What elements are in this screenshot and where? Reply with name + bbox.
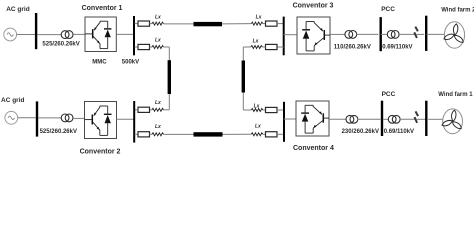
svg-text:AC grid: AC grid: [6, 6, 30, 13]
wind turbine (Wind farm 2): [443, 22, 464, 48]
wire L1 to cable 13: [164, 23, 194, 25]
inductor L7: [251, 109, 262, 112]
wire L8 to R8: [263, 133, 266, 135]
wire T5 to PCC bus: [358, 118, 381, 120]
transformer T6: [388, 115, 400, 123]
DC cable 13 (top): [194, 22, 223, 26]
svg-text:Conventor 3: Conventor 3: [293, 3, 334, 10]
wire bus to wind turbine 2: [426, 33, 444, 35]
breaker (top): [414, 27, 418, 38]
wire G2 to bus: [18, 117, 36, 119]
converter U4 (MMC): [296, 101, 329, 136]
AC source G2: [5, 111, 18, 124]
bus bar AC grid top: [35, 13, 37, 49]
transformer T1: [61, 31, 73, 39]
wire bus to wind turbine 1: [428, 118, 443, 120]
wire cable 13 to L5: [222, 23, 251, 25]
DC bus of converter 1: [133, 16, 135, 55]
wire left cable to L3: [164, 109, 170, 111]
wind farm bus (top): [425, 16, 427, 51]
transformer T4: [387, 31, 399, 39]
PCC bus (bottom): [381, 101, 383, 136]
transformer T2: [61, 114, 73, 122]
wire L3 to R3: [150, 109, 153, 111]
inductor L4: [152, 133, 164, 136]
wire R7 to bus4: [277, 109, 284, 111]
converter U2 (MMC): [85, 102, 117, 139]
svg-text:Conventor 4: Conventor 4: [293, 145, 334, 152]
DC cable 24 (bottom): [194, 132, 223, 136]
svg-text:110/260.26kV: 110/260.26kV: [334, 44, 371, 50]
series device R6: [266, 44, 278, 49]
wire bus1 to R2: [135, 46, 138, 48]
svg-text:Lx: Lx: [155, 14, 161, 20]
wire T3 to PCC bus: [356, 33, 378, 35]
wire R8 to bus4: [277, 133, 284, 135]
wire bus2 to R4: [135, 133, 138, 135]
wire bus to transformer T2: [38, 117, 61, 119]
wire breaker to WF bus: [416, 33, 424, 35]
series device R3: [138, 107, 150, 112]
DC bus of converter 4: [283, 102, 285, 142]
transformer T5: [346, 115, 358, 123]
wire right cable vertical: [242, 47, 244, 110]
svg-text:525/260.26kV: 525/260.26kV: [40, 129, 77, 135]
wire U2 to DC bus: [117, 118, 134, 120]
wire bus3 to converter U3: [284, 34, 297, 36]
wire right cable to L7: [243, 109, 251, 111]
converter U1 (MMC): [85, 17, 116, 52]
svg-text:Lx: Lx: [253, 39, 259, 45]
inductor L1: [152, 22, 164, 25]
inductor L8: [251, 133, 262, 136]
wire L2 corner: [164, 46, 170, 48]
wire R5 to bus3: [277, 23, 284, 25]
wire R6 to L6: [262, 46, 265, 48]
svg-text:Lx: Lx: [155, 100, 161, 106]
svg-text:AC grid: AC grid: [1, 97, 25, 104]
wire T2 to converter U2: [73, 117, 85, 119]
wire R4 to L4: [150, 133, 153, 135]
svg-text:MMC: MMC: [92, 59, 107, 65]
series device R4: [138, 132, 150, 137]
wire L6 corner: [243, 46, 251, 48]
wire U3 to transformer T3: [330, 33, 345, 35]
wire T1 to converter U1: [73, 33, 85, 35]
inductor L6: [251, 46, 262, 49]
series device R8: [266, 132, 278, 137]
DC cable 34 (right): [242, 61, 245, 93]
PCC bus (top): [380, 17, 382, 51]
wire PCC to transformer T6: [383, 118, 389, 120]
inductor L3: [152, 108, 164, 111]
wire R3 to bus2: [135, 109, 138, 111]
svg-text:PCC: PCC: [381, 6, 395, 13]
AC source G1: [4, 28, 17, 41]
wire L5 to R5: [263, 23, 266, 25]
svg-text:525/260.26kV: 525/260.26kV: [42, 41, 79, 47]
svg-text:0.69/110kV: 0.69/110kV: [382, 44, 412, 50]
transformer T3: [345, 31, 357, 39]
svg-text:Lx: Lx: [155, 124, 161, 130]
wire U1 to DC bus: [116, 33, 133, 35]
svg-text:0.69/110kV: 0.69/110kV: [384, 129, 414, 135]
wire PCC to transformer T4: [381, 33, 388, 35]
svg-text:PCC: PCC: [382, 91, 396, 98]
DC cable 12 (left): [168, 60, 171, 94]
svg-text:Wind farm 2: Wind farm 2: [441, 7, 474, 13]
wire bus1 to R1: [135, 23, 138, 25]
wire T4 to breaker: [399, 33, 416, 35]
series device R1: [138, 21, 150, 26]
inductor L2: [152, 46, 164, 49]
wire bus3 to R6: [277, 46, 284, 48]
wind turbine (Wind farm 1): [441, 109, 462, 134]
wire bus to transformer T1: [37, 34, 61, 36]
converter U3 (MMC): [297, 17, 330, 54]
series device R7: [266, 107, 278, 112]
series device R5: [266, 21, 278, 26]
svg-text:Conventor 1: Conventor 1: [82, 5, 123, 12]
svg-text:Conventor 2: Conventor 2: [80, 148, 121, 155]
wire R2 to L2: [150, 46, 153, 48]
wire T6 to breaker: [400, 118, 416, 120]
wire bus4 to converter U4: [284, 118, 296, 120]
wire L4 to cable 24: [164, 133, 194, 135]
DC bus of converter 3: [283, 17, 285, 56]
wire L7 to R7: [263, 109, 266, 111]
wire G1 to bus: [17, 34, 35, 36]
svg-text:Lx: Lx: [256, 14, 262, 20]
svg-text:500kV: 500kV: [122, 59, 139, 65]
breaker (bottom): [415, 111, 419, 122]
wire left cable vertical: [168, 47, 170, 110]
svg-text:Lx: Lx: [255, 124, 261, 130]
wire cable 24 to L8: [223, 133, 252, 135]
wire U4 to transformer T5: [329, 118, 346, 120]
inductor L5: [251, 22, 262, 25]
DC bus of converter 2: [133, 101, 135, 143]
wind farm bus (bottom): [425, 101, 427, 136]
svg-text:Lx: Lx: [155, 37, 161, 43]
svg-text:230/260.26kV: 230/260.26kV: [342, 129, 379, 135]
wire R1 to L1: [150, 23, 153, 25]
svg-text:Wind farm 1: Wind farm 1: [438, 92, 473, 98]
bus bar AC grid bottom: [36, 101, 38, 136]
series device R2: [138, 44, 150, 49]
wire breaker to WF bus: [416, 118, 426, 120]
